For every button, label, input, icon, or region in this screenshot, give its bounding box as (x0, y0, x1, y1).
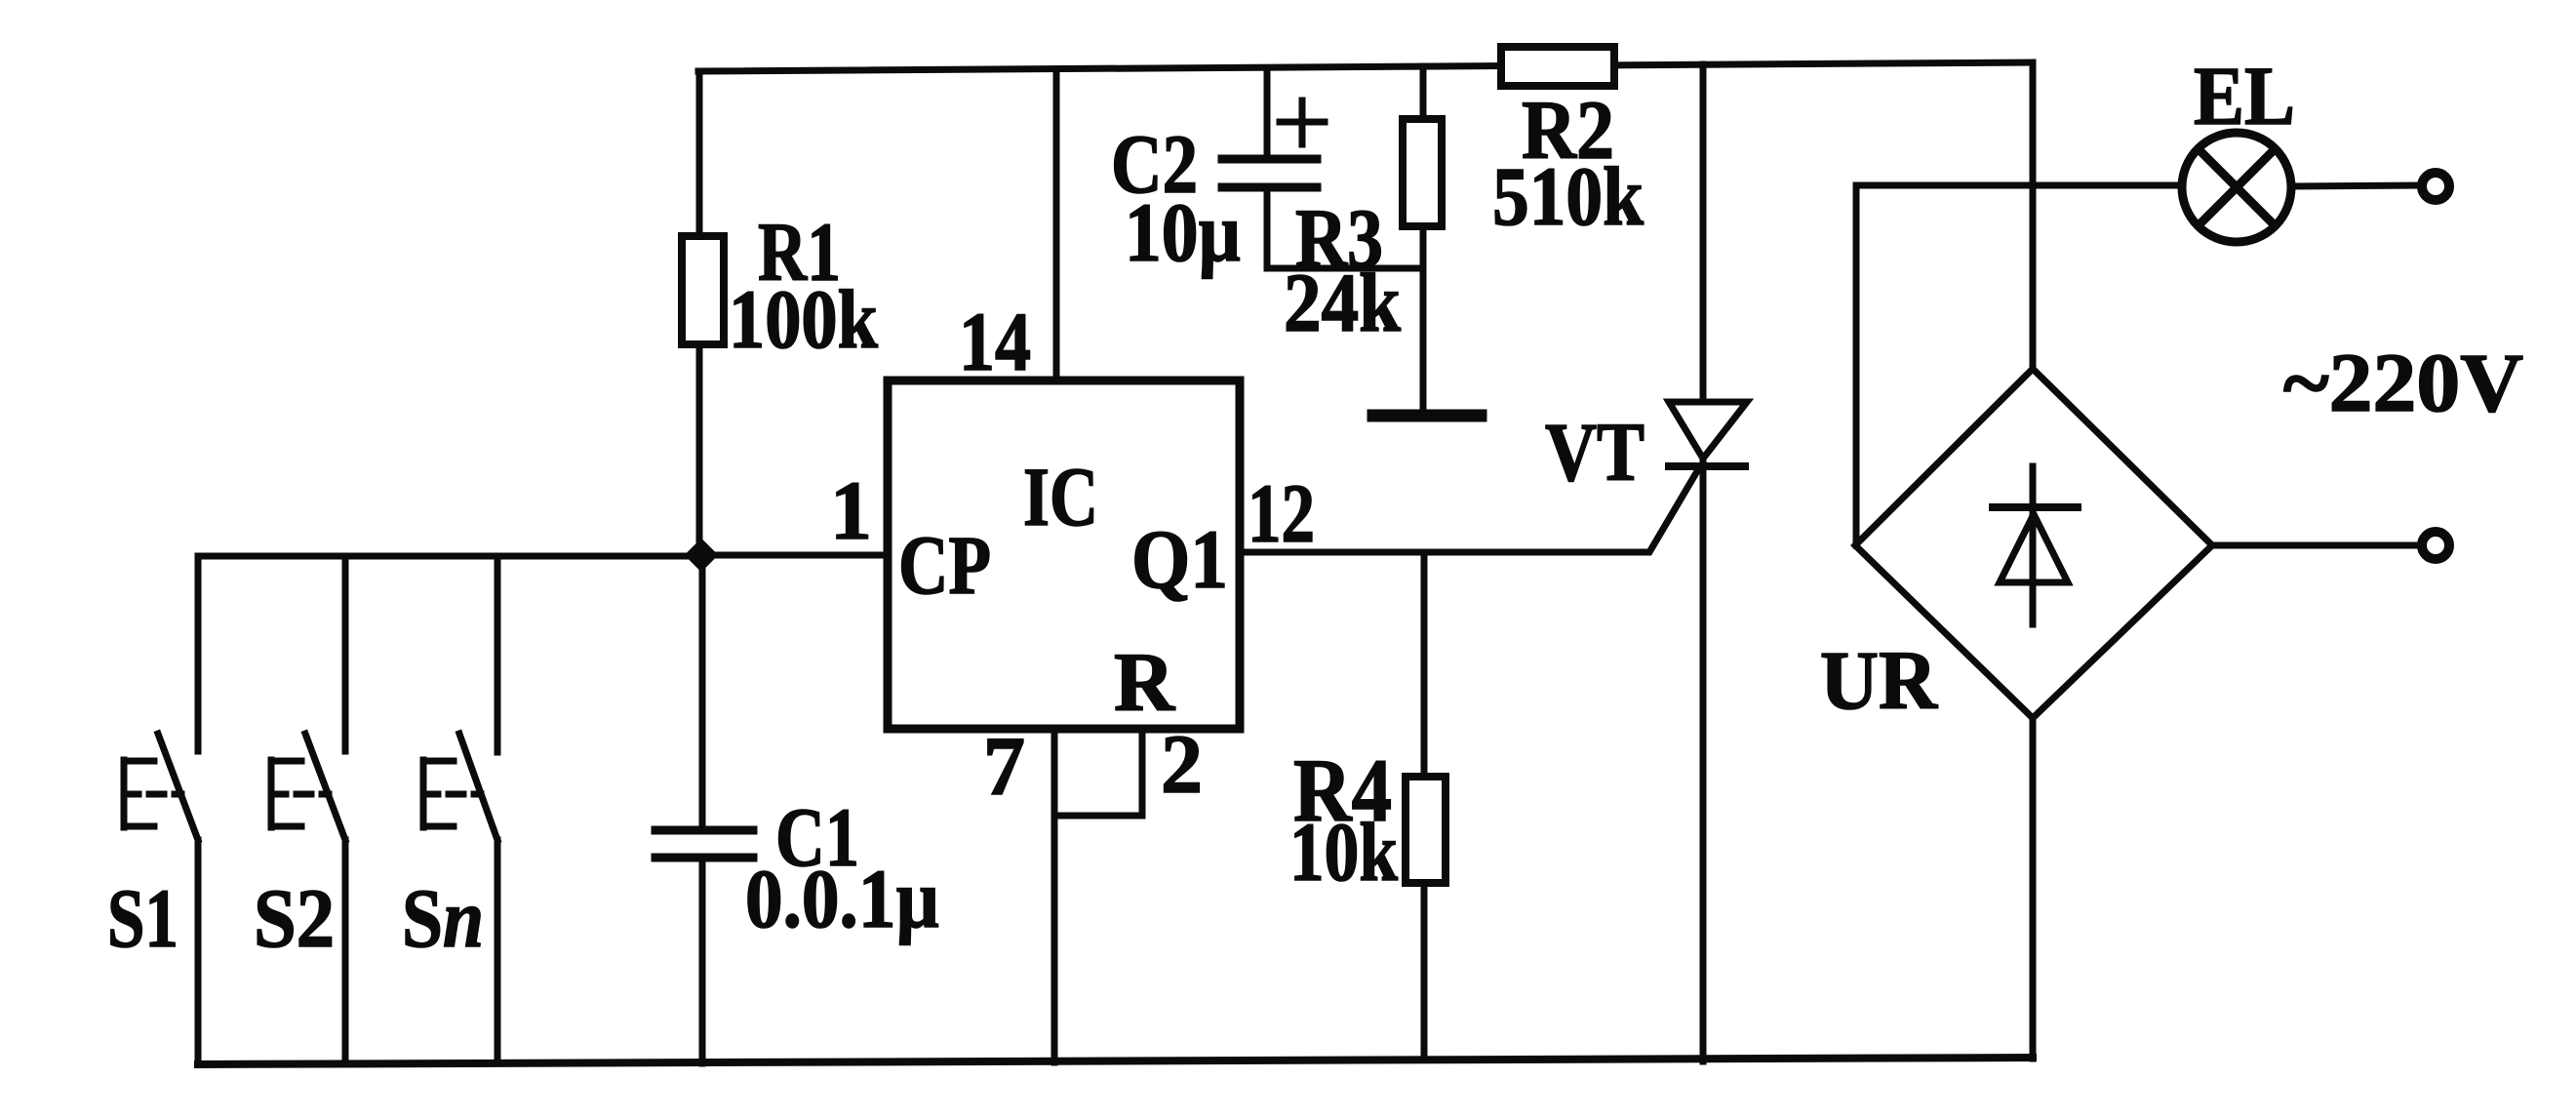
node junction at CP input (686, 540, 717, 571)
capacitor C2 (1222, 68, 1423, 268)
wire bottom ground bus (198, 1058, 2033, 1064)
resistor R4 (1406, 552, 1446, 1060)
wire lamp feed (1856, 182, 2183, 189)
svg-text:UR: UR (1820, 633, 1938, 727)
wire Q1 pin 12 to VT gate (1240, 471, 1697, 552)
wire lamp to terminal (2291, 185, 2421, 186)
svg-text:12: 12 (1248, 466, 1315, 560)
svg-text:14: 14 (959, 295, 1031, 388)
wire top supply rail (698, 62, 2033, 71)
wire pin 2 lead (1054, 729, 1142, 816)
svg-text:EL: EL (2194, 49, 2295, 142)
ground (1373, 410, 1481, 422)
diode bridge UR (1855, 62, 2212, 1059)
wire bridge right to terminal (2212, 542, 2421, 549)
wire left switch bus (198, 553, 701, 560)
transistor VT thyristor (1669, 64, 1747, 1061)
node terminal bottom (2422, 532, 2449, 559)
resistor R1 (682, 236, 724, 344)
svg-text:R: R (1114, 635, 1175, 729)
wire R1 top lead (696, 71, 703, 236)
lamp EL (2182, 133, 2291, 242)
svg-text:510k: 510k (1492, 149, 1644, 243)
switch S2 (271, 556, 345, 1063)
svg-text:0.0.1µ: 0.0.1µ (745, 852, 939, 945)
svg-text:~220V: ~220V (2283, 336, 2523, 429)
svg-text:10µ: 10µ (1125, 185, 1241, 279)
capacitor C1 (655, 555, 753, 1063)
svg-text:100k: 100k (729, 272, 878, 366)
svg-text:IC: IC (1023, 450, 1098, 543)
wire CP pin 1 lead (701, 552, 888, 559)
switch Sn (423, 556, 497, 1063)
svg-text:2: 2 (1161, 717, 1203, 811)
svg-text:CP: CP (898, 518, 991, 612)
svg-text:S1: S1 (107, 871, 178, 965)
switch S1 (124, 556, 198, 1064)
svg-text:7: 7 (983, 719, 1025, 813)
diode inside bridge (1993, 466, 2078, 624)
svg-text:Q1: Q1 (1131, 512, 1228, 606)
wire pin 7 lead (1051, 729, 1058, 1062)
svg-text:Sn: Sn (402, 871, 484, 965)
svg-text:24k: 24k (1284, 256, 1401, 349)
wire R1 bottom lead (696, 344, 703, 555)
wire pin 14 lead (1053, 70, 1060, 380)
svg-text:S2: S2 (254, 871, 335, 965)
IC chip box (888, 380, 1240, 729)
resistor R3 (1403, 66, 1442, 410)
svg-text:VT: VT (1545, 405, 1645, 499)
resistor R2 (1501, 47, 1614, 86)
svg-text:10k: 10k (1289, 805, 1398, 899)
svg-text:1: 1 (830, 463, 872, 557)
node terminal top (2422, 173, 2449, 200)
